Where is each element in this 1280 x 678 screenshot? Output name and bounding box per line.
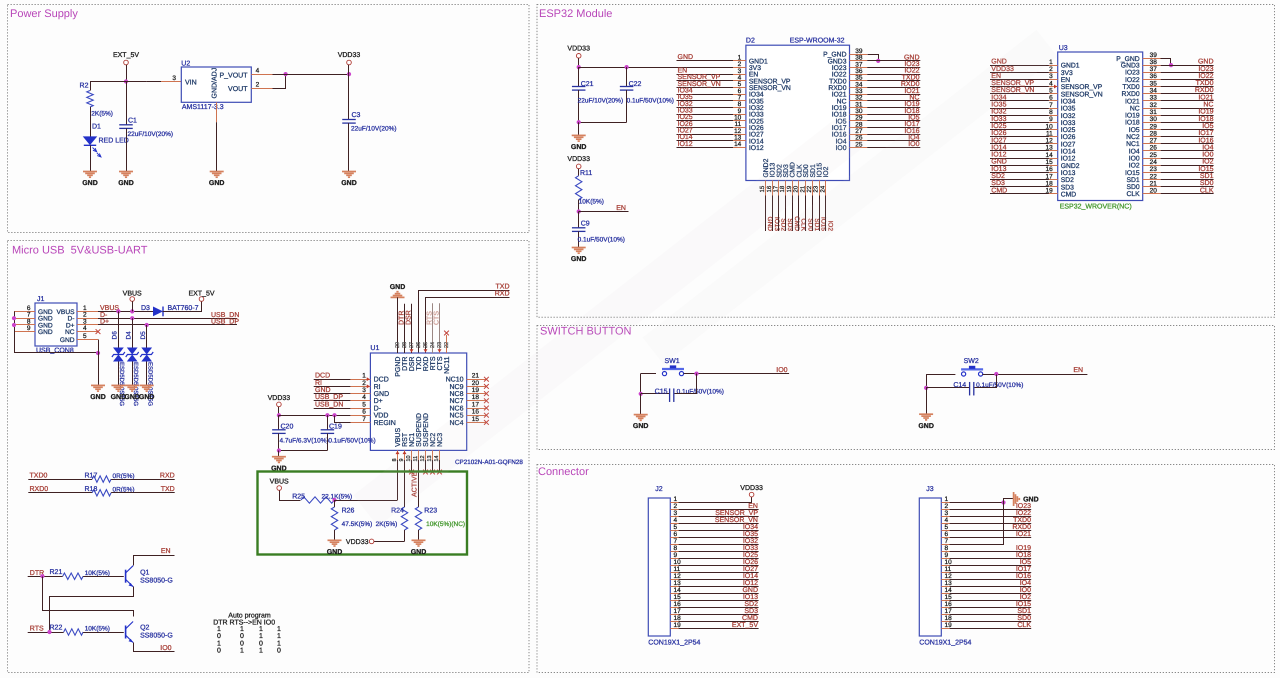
wire U1 SUSPEND2 stub with X [423,460,428,474]
svg-text:1: 1 [259,648,263,655]
pin lead J3 pin5 [941,530,949,532]
resistor R26 [331,500,372,540]
green highlight box [258,472,468,555]
svg-text:14: 14 [734,141,742,148]
svg-text:6: 6 [1049,95,1053,102]
svg-text:GND: GND [209,180,225,187]
wire DTR cross B [43,577,134,617]
wire D2 pin24 stub [825,196,827,232]
pin lead D2 pin4 [733,80,746,82]
svg-text:VDD33: VDD33 [346,539,369,546]
input arrow U1 DSR [410,349,414,352]
svg-text:2: 2 [945,503,949,510]
wire D2 pin29 stub [867,120,920,122]
wire J2 pin13 net [679,586,759,588]
pin lead U3 pin13 [1049,150,1058,152]
wire D2 pin26 stub [867,140,920,142]
svg-text:9: 9 [945,552,949,559]
svg-text:7: 7 [362,416,366,423]
svg-text:IO14: IO14 [1061,149,1076,156]
svg-text:IO2: IO2 [1129,163,1140,170]
ground under D5 [139,385,155,401]
wire SW1 gnd branch [640,374,642,394]
junction TVS D5 [145,323,149,327]
svg-text:R23: R23 [424,508,437,515]
wire J2 pin11 net [679,572,759,574]
pin lead J2 pin15 [670,600,678,602]
svg-text:CP2102N-A01-GQFN28: CP2102N-A01-GQFN28 [455,459,523,466]
svg-text:IO15: IO15 [1016,601,1031,608]
svg-text:DTR: DTR [399,311,406,325]
svg-text:6: 6 [674,531,678,538]
pin lead J2 pin3 [670,516,678,518]
svg-text:NC7: NC7 [449,398,463,405]
wire D2 pin13 stub [677,140,734,142]
svg-text:3: 3 [674,510,678,517]
wire VDD33 stem [348,65,350,74]
svg-text:1: 1 [945,496,949,503]
wire D2 pin36 stub [867,74,920,76]
svg-text:38: 38 [1150,59,1158,66]
wire U1 NC1 stub with X [409,460,414,474]
wire U1 RXD to right [426,298,510,353]
pin lead U1 pin2 [350,386,370,388]
wire D2 pin21 stub [805,196,807,232]
svg-text:1: 1 [259,633,263,640]
svg-text:NC2: NC2 [1126,134,1140,141]
wire U3 pin18 stub [990,186,1049,188]
pin lead U3 pin7 [1049,108,1058,110]
wire J2 pin3 net [679,516,759,518]
svg-text:GND2: GND2 [1061,163,1080,170]
svg-text:AMS1117-3.3: AMS1117-3.3 [182,104,224,111]
svg-text:4: 4 [362,394,366,401]
wire J3 pin17 net [950,614,1032,616]
net port VDD33 power supply [338,52,361,65]
pin lead U2 VIN [161,81,181,83]
connector J1 USB_CON8 body [35,296,77,355]
wire REGIN jog [335,416,351,423]
svg-text:SD2: SD2 [1061,177,1074,184]
pin lead J3 pin18 [941,621,949,623]
pin lead U1 bottom pin14 [439,450,441,460]
wire U3 pin8 stub [990,115,1049,117]
pin lead J1 pin5 GND [77,339,98,341]
svg-text:CLK: CLK [1126,191,1140,198]
svg-text:DSR: DSR [406,310,413,325]
wire U1 DTR stub [404,304,406,353]
wire U3 pin6 stub [990,100,1049,102]
wire U1 CTS stub [439,303,441,353]
pin lead D2 pin39 P_GND [850,54,868,56]
pin lead U3 pin19 [1049,193,1058,195]
ground at J3 pin1 [1014,492,1039,506]
pin lead D2 pin2 [733,67,746,69]
svg-text:0: 0 [240,640,244,647]
svg-text:ESP32 Module: ESP32 Module [539,8,612,20]
svg-text:5: 5 [83,333,87,340]
svg-text:U2: U2 [181,60,190,67]
pin lead U1 bottom pin11 [418,450,420,460]
svg-text:IO21: IO21 [1198,94,1213,101]
svg-text:C9: C9 [581,220,590,227]
svg-text:29: 29 [1150,123,1158,130]
wire U1 DSR stub [411,304,413,353]
svg-text:35: 35 [1150,80,1158,87]
svg-text:IO26: IO26 [1061,134,1076,141]
junction C21 gnd [577,120,581,124]
wire SW1 gnd drop [640,394,642,415]
svg-text:IO35: IO35 [1061,106,1076,113]
svg-text:R25: R25 [292,493,305,500]
svg-text:IO25: IO25 [991,123,1006,130]
svg-text:4: 4 [674,517,678,524]
pin lead U3 pin14 [1049,158,1058,160]
wire J2 pin10 net [679,565,759,567]
svg-text:2: 2 [674,503,678,510]
wire D2 pin31 stub [867,107,920,109]
wire U3 pin23 stub [1161,172,1214,174]
svg-text:REGIN: REGIN [374,420,396,427]
wire J2 pin9 net [679,558,759,560]
svg-text:3: 3 [1049,73,1053,80]
wire VBUS to R25 [280,491,301,501]
svg-text:IO33: IO33 [991,116,1006,123]
net port VDD33 esp top [567,45,590,58]
ground under C1 [118,172,134,188]
pin lead J2 pin6 [670,537,678,539]
pin lead J3 pin9 [941,558,949,560]
wire 3V3 rail to D2 [579,67,733,69]
svg-text:D5: D5 [140,331,147,340]
pin lead D2 pin24 [825,181,827,196]
svg-text:IO4: IO4 [1020,580,1031,587]
svg-text:6: 6 [362,409,366,416]
net port VDD33 at J2 [740,485,763,497]
wire R17 to RXD [111,479,175,481]
watermark band [353,30,1057,527]
svg-text:J1: J1 [37,296,45,303]
svg-text:3: 3 [945,510,949,517]
svg-text:RXD: RXD [423,357,430,372]
pin lead D2 pin36 [850,74,868,76]
svg-text:22.1K(5%): 22.1K(5%) [322,493,353,500]
svg-text:DCD: DCD [374,377,389,384]
svg-text:IO19: IO19 [1016,545,1031,552]
svg-text:IO4: IO4 [1129,148,1140,155]
pin lead U3 pin2 [1049,72,1058,74]
junction VDD33 rail [347,72,351,76]
wire U3 P_GND jog [1161,59,1171,66]
pin lead J3 pin16 [941,607,949,609]
junction J3 pin1 pin7 [1001,500,1005,504]
input arrow U1 CTS [438,349,442,352]
net port EXT_5V usb [188,291,214,302]
wire D2 pin17 stub [778,196,780,232]
wire J2 pin15 net [679,600,759,602]
pin lead U3 pin12 [1049,143,1058,145]
svg-text:BAT760-7: BAT760-7 [168,305,199,312]
pin lead J3 pin19 [941,628,949,630]
svg-text:VBUS: VBUS [270,478,289,485]
pin lead D2 pin35 [850,80,868,82]
wire EXT_5V stem [126,65,128,82]
pin lead J1 pin1 VBUS [77,311,98,313]
wire J3 pin16 net [950,607,1032,609]
svg-text:28: 28 [402,342,408,348]
svg-text:IO17: IO17 [1016,566,1031,573]
wire J2 pin5 net [679,530,759,532]
wire U3 pin31 stub [1161,115,1214,117]
pin lead U3 pin8 [1049,115,1058,117]
pin lead J2 pin7 [670,544,678,546]
svg-text:22: 22 [1150,173,1158,180]
svg-text:IO0: IO0 [776,367,787,374]
svg-text:IO12: IO12 [991,152,1006,159]
pin lead U3 pin17 [1049,179,1058,181]
wire U1 NC2 stub with X [430,460,435,474]
svg-text:EN: EN [161,548,171,555]
wire D2 pin22 stub [812,196,814,232]
wire J3 pin15 net [950,600,1032,602]
wire VOUT up to P_VOUT rail [273,75,286,89]
svg-text:RI: RI [315,380,322,387]
svg-text:IO22: IO22 [1016,510,1031,517]
pin lead U3 pin39 P_GND [1143,58,1161,60]
svg-text:0.1uF/50V(10%): 0.1uF/50V(10%) [328,438,375,445]
svg-text:RTS: RTS [430,356,437,370]
svg-text:23: 23 [437,342,443,348]
svg-text:IO13: IO13 [743,594,758,601]
wire TXD0 left [28,479,92,481]
wire J3 pin19 net [950,628,1032,630]
connector J3 CON19X1_2P54 body [919,486,971,647]
wire R25 to U1 VBUS column [335,500,398,502]
pin lead J1 pin3 D+ [77,324,98,326]
svg-text:SD0: SD0 [1200,180,1214,187]
wire D2 pin19 stub [792,196,794,232]
svg-text:IO26: IO26 [743,559,758,566]
svg-text:IO26: IO26 [991,130,1006,137]
wire R24 to VDD33 [374,541,405,543]
input arrow U1 VBUS pin8 [396,451,400,454]
svg-text:GND: GND [341,180,357,187]
pin lead D2 pin30 [850,114,868,116]
wire U1 SUSPEND ACTIVE drop [418,460,420,507]
svg-text:0.1uF/50V(10%): 0.1uF/50V(10%) [578,237,625,244]
wire SW1 right to IO0 [684,373,790,375]
svg-text:R26: R26 [342,508,355,515]
junction TVS D4 [130,316,134,320]
IC U1 CP2102N-A01-GQFN28 body [370,345,523,466]
wire Q2 emitter to IO0 [134,643,175,652]
capacitor C14 [953,382,1023,396]
svg-text:SD0: SD0 [1017,615,1031,622]
wire U3 pin25 stub [1161,158,1214,160]
pin lead J2 pin4 [670,523,678,525]
pin lead D2 pin26 [850,140,868,142]
svg-text:GND: GND [139,394,155,401]
pin lead J2 pin8 [670,551,678,553]
svg-text:IO19: IO19 [1125,113,1140,120]
svg-text:25: 25 [423,342,429,348]
svg-text:GND: GND [82,180,98,187]
wire SW1 left [641,373,656,375]
svg-text:9: 9 [1049,116,1053,123]
svg-text:IO0: IO0 [1129,155,1140,162]
wire J3 pin18 net [950,621,1032,623]
svg-text:IO27: IO27 [991,137,1006,144]
ground under D1 [82,172,98,188]
wire D2 pin35 stub [867,80,920,82]
svg-text:IO23: IO23 [1198,66,1213,73]
svg-text:5: 5 [1049,88,1053,95]
wire D2 pin9 stub [677,114,734,116]
ground under C20 [271,457,287,473]
svg-text:30: 30 [1150,116,1158,123]
pin lead U1 pin4 [350,400,370,402]
wire U3 pin22 stub [1161,179,1214,181]
pin lead U3 pin18 [1049,186,1058,188]
wire D2 pin7 stub [677,100,734,102]
pin lead D2 pin6 [733,94,746,96]
svg-text:SENSOR_VN: SENSOR_VN [1061,91,1103,98]
pin lead D2 pin38 [850,60,868,62]
svg-text:CMD: CMD [991,187,1007,194]
svg-text:USB_DN: USB_DN [315,401,343,408]
wire U3 pin28 stub [1161,136,1214,138]
wire J3 pin12 net [950,579,1032,581]
section Power Supply [8,5,530,233]
pin lead U3 pin15 [1049,165,1058,167]
wire J3 pin10 net [950,565,1032,567]
pin lead U2 pin2 VOUT [251,88,272,90]
svg-text:5: 5 [674,524,678,531]
pin lead U3 pin27 [1143,143,1161,145]
pin lead J3 pin11 [941,572,949,574]
svg-text:IO35: IO35 [743,531,758,538]
svg-text:CMD: CMD [742,615,758,622]
wire J3 pin9 net [950,558,1032,560]
wire U3 pin19 stub [990,193,1049,195]
svg-text:R22: R22 [50,625,63,632]
svg-text:D1: D1 [92,124,101,131]
pin lead J2 pin16 [670,607,678,609]
svg-text:IO16: IO16 [1198,137,1213,144]
wire U3 pin15 stub [990,165,1049,167]
svg-text:IO0: IO0 [1020,587,1031,594]
wire U3 pin24 stub [1161,165,1214,167]
svg-text:8: 8 [674,545,678,552]
svg-text:RTS: RTS [427,311,434,325]
wire D2 pin14 stub [677,147,734,149]
svg-text:GND: GND [38,329,53,336]
svg-text:USB_DP: USB_DP [211,319,239,326]
resistor R23 [415,507,465,540]
svg-text:GND: GND [411,549,427,556]
wire D2 P_GND jog [868,55,879,61]
svg-text:NC: NC [1203,102,1213,109]
svg-text:GND: GND [374,391,390,398]
wire D2 pin28 stub [867,127,920,129]
svg-text:NC: NC [65,329,75,336]
svg-text:J3: J3 [926,486,934,493]
svg-text:VDD33: VDD33 [567,45,590,52]
svg-text:IO19: IO19 [1198,109,1213,116]
net port VDD33 at U1 [268,395,291,407]
switch SW2 [961,358,983,376]
svg-text:TXD0: TXD0 [30,472,48,479]
svg-text:0: 0 [217,633,221,640]
svg-text:IO25: IO25 [743,552,758,559]
wire SW2 left [926,374,955,376]
svg-text:J2: J2 [655,486,663,493]
svg-text:DSR: DSR [409,357,416,372]
svg-text:RXD: RXD [495,291,510,298]
pin lead U3 pin28 [1143,136,1161,138]
wire P_VOUT to VDD33 [273,74,350,76]
svg-text:1: 1 [362,373,366,380]
junction SW2 C14 [994,372,998,376]
ground under D4 [124,385,140,401]
ground under C9 [571,248,587,264]
svg-text:IO2: IO2 [1020,594,1031,601]
svg-text:IO17: IO17 [1198,130,1213,137]
wire R22 to Q2 base [83,632,124,634]
pin lead J1 pin2 D- [77,318,98,320]
wire RTS [28,632,64,634]
svg-text:SD1: SD1 [1017,608,1031,615]
pin lead D2 pin11 [733,127,746,129]
pin lead J3 pin7 [941,544,949,546]
svg-text:0.1uF/50V(10%): 0.1uF/50V(10%) [976,382,1023,389]
wire DTR [28,576,63,578]
wire U1 USB_DP stub [314,400,351,402]
wire SW2 gnd branch [926,375,928,388]
svg-text:SD2: SD2 [991,173,1005,180]
svg-text:IO27: IO27 [1061,141,1076,148]
pin lead J3 pin12 [941,579,949,581]
pin lead U1 pin21 NC [467,377,489,382]
net port EXT_5V [113,52,139,65]
capacitor C19 [321,415,376,450]
svg-text:C19: C19 [329,424,342,431]
wire U1 DCD stub [314,379,351,381]
transistor Q2 SS8050-G [126,622,173,643]
wire D2 pin38 stub [867,60,920,62]
pin lead U3 pin3 [1049,79,1058,81]
capacitor C3 [342,74,396,171]
svg-text:IO27: IO27 [743,566,758,573]
pin lead J3 pin13 [941,586,949,588]
wire J3 pin7 up [950,503,1004,545]
pin lead J2 pin14 [670,593,678,595]
svg-text:IO5: IO5 [1129,127,1140,134]
svg-text:RST: RST [402,432,409,447]
svg-text:33: 33 [1150,95,1158,102]
wire U3 pin16 stub [990,172,1049,174]
svg-text:0.1uF/50V(10%): 0.1uF/50V(10%) [627,98,674,105]
junction SW1 C15 [694,372,698,376]
svg-text:D-: D- [374,405,382,412]
svg-text:VBUS: VBUS [123,291,142,298]
section Connector [537,465,1275,673]
svg-text:22uF/10V(20%): 22uF/10V(20%) [351,126,397,133]
pin lead J3 pin10 [941,565,949,567]
wire D2 pin4 stub [677,80,734,82]
svg-text:7: 7 [945,538,949,545]
pin lead U2 pin4 P_VOUT [251,74,272,76]
